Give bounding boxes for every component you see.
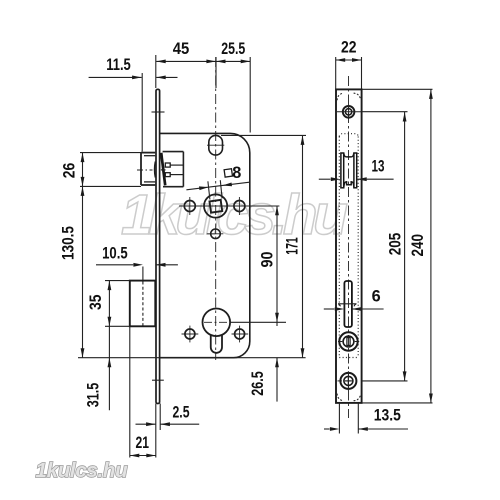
svg-text:13: 13 <box>372 158 385 176</box>
follower square 8mm <box>209 200 222 213</box>
label 25.5 <box>221 40 245 58</box>
dim 10.5 <box>96 263 178 280</box>
svg-text:45: 45 <box>173 40 190 58</box>
dim 35 and 31.5 line <box>105 281 130 411</box>
watermark center <box>121 183 347 247</box>
svg-text:22: 22 <box>341 39 357 57</box>
label 35 <box>87 294 105 310</box>
latch bolt head <box>141 153 155 185</box>
oval hole <box>207 135 224 155</box>
svg-text:13.5: 13.5 <box>374 407 401 425</box>
dim 13.5 <box>324 404 408 434</box>
plate corner dotted arcs <box>337 93 360 401</box>
label 90 <box>258 252 276 268</box>
svg-text:11.5: 11.5 <box>106 56 131 74</box>
follower circle <box>204 194 227 217</box>
screw hole top <box>337 105 362 120</box>
svg-text:240: 240 <box>409 234 427 257</box>
lock case outline <box>160 133 250 357</box>
post left of cylinder <box>182 326 199 343</box>
label 31.5 <box>85 383 103 408</box>
latch front view <box>341 153 357 188</box>
svg-text:31.5: 31.5 <box>85 383 103 408</box>
dim 130.5 <box>81 186 85 357</box>
svg-text:10.5: 10.5 <box>102 245 128 263</box>
svg-text:6: 6 <box>372 288 381 306</box>
dim 90 and 26.5 line <box>231 206 287 402</box>
label square-8 symbol <box>224 169 232 177</box>
dim 2.5 <box>136 404 200 458</box>
svg-text:171: 171 <box>284 237 302 255</box>
label 13 <box>372 158 385 176</box>
latch centerline <box>137 169 153 171</box>
follower horizontal centerline <box>179 205 279 207</box>
plate screw mark top <box>152 111 165 113</box>
svg-text:205: 205 <box>387 233 405 256</box>
latch tail <box>161 152 184 187</box>
svg-text:8: 8 <box>232 164 241 182</box>
label 171 <box>284 237 302 255</box>
centerline vertical right view <box>348 76 350 418</box>
small hole <box>207 229 224 239</box>
screw hole bottom <box>338 371 357 390</box>
hidden case outline dotted <box>339 134 358 358</box>
post right of cylinder <box>232 326 249 343</box>
post left of follower <box>184 197 195 215</box>
plate screw mark bottom <box>152 379 164 381</box>
deadbolt slot front view <box>344 281 352 327</box>
deadbolt <box>130 281 156 327</box>
deadbolt face extension line <box>129 326 131 457</box>
mid hole front view <box>338 332 359 350</box>
svg-text:26.5: 26.5 <box>249 371 267 396</box>
watermark bottom-left <box>36 459 129 482</box>
latch bevel <box>161 153 165 186</box>
svg-text:1kulcs.hu: 1kulcs.hu <box>121 183 347 247</box>
label 26 <box>60 163 78 179</box>
label 2.5 <box>173 403 190 421</box>
svg-text:130.5: 130.5 <box>59 226 77 260</box>
euro cylinder hole <box>203 309 231 353</box>
dim 240 <box>362 89 433 403</box>
dim 8 leader <box>186 180 249 199</box>
svg-text:35: 35 <box>87 294 105 310</box>
svg-text:90: 90 <box>258 252 276 268</box>
dim 13 <box>319 177 394 181</box>
label 205 <box>387 233 405 256</box>
svg-text:1kulcs.hu: 1kulcs.hu <box>36 459 129 482</box>
dim 45 and 25.5 line <box>156 55 250 133</box>
label 22 <box>341 39 357 57</box>
label 10.5 <box>102 245 128 263</box>
label 11.5 <box>106 56 131 74</box>
label 130.5 <box>59 226 77 260</box>
dim 171 <box>221 135 306 357</box>
post right of follower <box>234 197 245 215</box>
bolt face line <box>338 304 357 307</box>
label 8 <box>232 164 241 182</box>
label 13.5 <box>374 407 401 425</box>
faceplate side view <box>156 89 160 403</box>
dim 21 <box>130 454 156 458</box>
dim 11.5 <box>89 73 178 152</box>
dim 26 <box>80 153 141 187</box>
label 45 <box>173 40 190 58</box>
svg-text:21: 21 <box>136 434 150 452</box>
svg-text:25.5: 25.5 <box>221 40 245 58</box>
label 240 <box>409 234 427 257</box>
label 26.5 <box>249 371 267 396</box>
svg-text:2.5: 2.5 <box>173 403 190 421</box>
centerline vertical left view <box>215 57 217 360</box>
label 6 <box>372 288 381 306</box>
dim 22 <box>336 57 362 89</box>
case bottom extension line <box>78 357 306 359</box>
svg-text:26: 26 <box>60 163 78 179</box>
dim 205 <box>362 112 408 381</box>
label 21 <box>136 434 150 452</box>
faceplate front view <box>336 89 362 403</box>
dim 6 <box>324 307 384 311</box>
